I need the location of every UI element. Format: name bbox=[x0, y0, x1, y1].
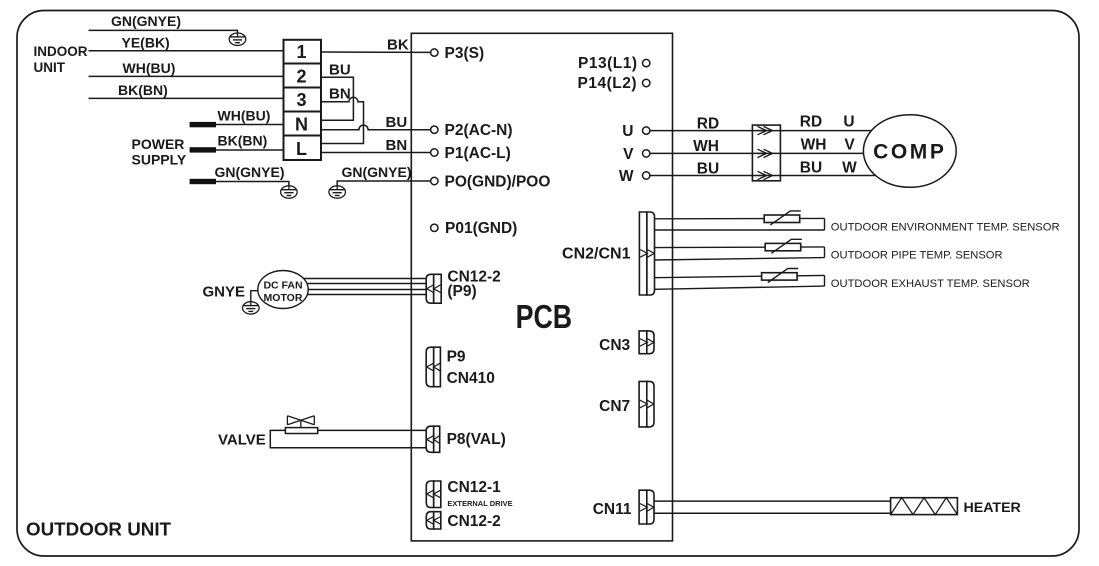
wires CN11 to heater bbox=[654, 501, 891, 513]
wire color labels RD WH BU left of connector bbox=[693, 114, 857, 178]
svg-text:POWER: POWER bbox=[132, 136, 185, 152]
wire sensor2 end bbox=[824, 247, 826, 258]
wire labels power side bbox=[215, 108, 412, 181]
wire terminal 2 loop to N bbox=[321, 77, 353, 120]
wire labels BK BU BN near PCB bbox=[329, 37, 409, 154]
svg-text:(P9): (P9) bbox=[447, 283, 476, 300]
svg-text:P9: P9 bbox=[447, 348, 466, 365]
terminal P1(AC-L) bbox=[431, 149, 438, 156]
wire L to P1(AC-L) BN bbox=[321, 152, 431, 154]
terminal labels 1 2 3 N L bbox=[295, 42, 308, 159]
ground power supply bbox=[281, 186, 298, 198]
power supply bar GN(GNYE) bbox=[190, 179, 216, 184]
svg-text:YE(BK): YE(BK) bbox=[122, 35, 170, 51]
svg-text:BU: BU bbox=[329, 62, 351, 79]
valve symbol bowtie bbox=[287, 416, 314, 428]
svg-text:BU: BU bbox=[697, 160, 719, 177]
svg-text:BU: BU bbox=[800, 159, 822, 176]
wire N to P2(AC-N) BU with hop bbox=[321, 125, 431, 130]
wire sensor3 bottom bbox=[654, 286, 825, 289]
terminal U bbox=[643, 127, 650, 134]
wire motor 3 bbox=[283, 289, 426, 291]
connector P8(VAL) bbox=[426, 426, 440, 452]
svg-text:BN: BN bbox=[329, 86, 351, 103]
svg-text:BN: BN bbox=[386, 137, 408, 154]
compressor connector box bbox=[752, 125, 780, 181]
svg-text:CN410: CN410 bbox=[447, 370, 495, 387]
PCB right terminal labels bbox=[578, 55, 638, 185]
wire V to COMP bbox=[650, 152, 910, 154]
wire sensor1 top bbox=[654, 217, 825, 219]
svg-text:COMP: COMP bbox=[873, 141, 946, 164]
svg-text:V: V bbox=[844, 137, 855, 154]
wire sensor3 top bbox=[654, 275, 825, 277]
connector CN3 bbox=[639, 331, 654, 354]
terminal P3(S) bbox=[431, 49, 438, 56]
PCB box bbox=[411, 33, 672, 541]
svg-text:BU: BU bbox=[386, 114, 408, 131]
svg-text:GNYE: GNYE bbox=[203, 284, 246, 301]
svg-text:SUPPLY: SUPPLY bbox=[132, 152, 187, 168]
svg-text:U: U bbox=[843, 114, 854, 131]
ground top GN(GNYE) bbox=[229, 33, 246, 45]
svg-text:OUTDOOR UNIT: OUTDOOR UNIT bbox=[26, 519, 172, 540]
wire sensor1 bottom bbox=[654, 229, 825, 231]
svg-text:BK(BN): BK(BN) bbox=[218, 133, 268, 149]
wire power WH(BU) to N bbox=[216, 124, 284, 126]
wire PO(GND) to ground bbox=[337, 181, 430, 186]
svg-text:OUTDOOR PIPE TEMP. SENSOR: OUTDOOR PIPE TEMP. SENSOR bbox=[831, 250, 1003, 262]
wire motor ground bbox=[251, 291, 283, 303]
wire GN(GNYE) from indoor unit to ground bbox=[89, 30, 238, 33]
svg-text:1: 1 bbox=[296, 42, 306, 62]
wire BK(BN) indoor to terminal 3 bbox=[89, 97, 284, 99]
PCB left terminal circles bbox=[431, 49, 438, 232]
heater element bbox=[891, 498, 958, 515]
svg-text:WH(BU): WH(BU) bbox=[218, 108, 271, 124]
svg-text:L: L bbox=[296, 139, 307, 159]
thermistor sensor2 bbox=[765, 239, 802, 253]
svg-text:MOTOR: MOTOR bbox=[264, 292, 303, 304]
svg-text:RD: RD bbox=[697, 115, 719, 132]
svg-text:U: U bbox=[622, 123, 633, 140]
wire sensor1 end bbox=[824, 218, 826, 230]
svg-text:CN12-2: CN12-2 bbox=[447, 513, 500, 530]
wire motor 2 bbox=[283, 283, 426, 285]
wire valve return bbox=[270, 430, 426, 447]
wire valve top bbox=[318, 429, 427, 431]
wire W to COMP bbox=[650, 175, 910, 177]
svg-text:GN(GNYE): GN(GNYE) bbox=[215, 164, 285, 180]
svg-text:P8(VAL): P8(VAL) bbox=[447, 431, 506, 448]
svg-text:P1(AC-L): P1(AC-L) bbox=[445, 145, 511, 162]
svg-text:P13(L1): P13(L1) bbox=[578, 55, 638, 72]
power supply bar BK(BN) bbox=[190, 147, 216, 152]
wire terminal 3 loop to L with hop bbox=[321, 97, 364, 143]
thermistor sensor3 bbox=[762, 268, 799, 282]
terminal block bbox=[284, 40, 322, 160]
terminal V bbox=[643, 150, 650, 157]
connector CN12-2 bottom bbox=[426, 512, 441, 529]
wire power GN(GNYE) to ground bbox=[216, 182, 289, 186]
svg-text:OUTDOOR EXHAUST TEMP. SENSOR: OUTDOOR EXHAUST TEMP. SENSOR bbox=[831, 278, 1030, 290]
power supply bar WH(BU) bbox=[190, 122, 216, 127]
ground PO(GND) bbox=[329, 186, 346, 198]
terminal PO(GND)/POO bbox=[431, 177, 438, 184]
dc fan motor bbox=[258, 271, 308, 309]
terminal P13(L1) bbox=[643, 59, 650, 66]
thermistor sensor1 bbox=[764, 211, 801, 225]
wire labels indoor side bbox=[111, 13, 181, 98]
svg-text:WH: WH bbox=[801, 137, 827, 154]
svg-text:OUTDOOR ENVIRONMENT TEMP. SE: OUTDOOR ENVIRONMENT TEMP. SENSOR bbox=[831, 221, 1060, 233]
wire CN11 top bbox=[654, 500, 891, 502]
svg-text:BK(BN): BK(BN) bbox=[118, 82, 168, 98]
wire WH(BU) indoor to terminal 2 bbox=[89, 75, 284, 77]
svg-text:PO(GND)/POO: PO(GND)/POO bbox=[445, 174, 551, 191]
svg-text:HEATER: HEATER bbox=[964, 500, 1021, 516]
connector CN2/CN1 bbox=[639, 212, 654, 295]
wire motor 1 bbox=[283, 278, 426, 280]
svg-text:DC FAN: DC FAN bbox=[263, 280, 302, 292]
svg-text:V: V bbox=[623, 146, 634, 163]
svg-text:CN3: CN3 bbox=[599, 337, 630, 354]
valve coil bbox=[285, 428, 317, 434]
connector CN11 bbox=[639, 490, 654, 524]
svg-text:INDOOR: INDOOR bbox=[34, 44, 88, 59]
sensor labels bbox=[831, 221, 1060, 290]
svg-text:W: W bbox=[619, 168, 634, 185]
svg-text:UNIT: UNIT bbox=[34, 60, 66, 75]
svg-text:WH(BU): WH(BU) bbox=[123, 60, 176, 76]
svg-text:GN(GNYE): GN(GNYE) bbox=[111, 13, 181, 29]
connector CN7 bbox=[639, 381, 654, 427]
svg-text:CN2/CN1: CN2/CN1 bbox=[562, 246, 631, 263]
connector arrows W bbox=[757, 171, 773, 179]
svg-text:CN12-1: CN12-1 bbox=[447, 479, 501, 496]
PCB right terminal circles P13 P14 U V W bbox=[643, 59, 650, 179]
svg-text:VALVE: VALVE bbox=[218, 431, 266, 448]
wire U to COMP bbox=[650, 130, 910, 132]
svg-text:P3(S): P3(S) bbox=[445, 45, 485, 62]
dc fan motor wires bbox=[251, 279, 426, 303]
svg-text:BK: BK bbox=[387, 37, 409, 54]
PCB left terminal labels bbox=[445, 45, 551, 237]
svg-text:W: W bbox=[842, 160, 857, 177]
svg-text:P01(GND): P01(GND) bbox=[445, 220, 517, 237]
wire motor 4 bbox=[283, 294, 426, 296]
valve coil loop wires bbox=[270, 430, 426, 447]
wire sensor3 end bbox=[824, 275, 826, 286]
svg-text:WH: WH bbox=[693, 138, 719, 155]
svg-text:CN11: CN11 bbox=[593, 501, 632, 518]
svg-text:P14(L2): P14(L2) bbox=[578, 75, 638, 92]
connector CN12-1 bbox=[426, 481, 441, 508]
compressor COMP bbox=[863, 115, 956, 188]
connector arrows V bbox=[757, 149, 773, 157]
svg-text:P2(AC-N): P2(AC-N) bbox=[445, 122, 513, 139]
svg-text:EXTERNAL DRIVE: EXTERNAL DRIVE bbox=[447, 499, 512, 508]
sensor wires from CN2/CN1 bbox=[654, 218, 825, 289]
connector CN12-2 (P9) top bbox=[426, 274, 441, 303]
svg-text:N: N bbox=[295, 115, 308, 135]
terminal W bbox=[643, 172, 650, 179]
ground motor GNYE bbox=[243, 302, 260, 314]
connector P9 CN410 bbox=[426, 347, 440, 387]
svg-text:CN7: CN7 bbox=[599, 398, 630, 415]
terminal P14(L2) bbox=[643, 79, 650, 86]
svg-text:RD: RD bbox=[800, 114, 822, 131]
connector arrows U bbox=[757, 126, 773, 179]
svg-text:GN(GNYE): GN(GNYE) bbox=[342, 164, 412, 180]
terminal P01(GND) bbox=[431, 224, 438, 231]
svg-text:PCB: PCB bbox=[516, 299, 573, 336]
terminal P2(AC-N) bbox=[431, 126, 438, 133]
wire CN11 bottom bbox=[654, 512, 891, 514]
wire terminal 1 to P3(S) BK bbox=[321, 51, 431, 53]
svg-text:2: 2 bbox=[296, 67, 306, 87]
wire YE(BK) indoor to terminal 1 bbox=[89, 50, 284, 52]
wire power BK(BN) to L bbox=[216, 149, 284, 151]
wire sensor2 bottom bbox=[654, 258, 825, 260]
wire sensor2 top bbox=[654, 246, 825, 249]
svg-text:3: 3 bbox=[296, 90, 306, 110]
